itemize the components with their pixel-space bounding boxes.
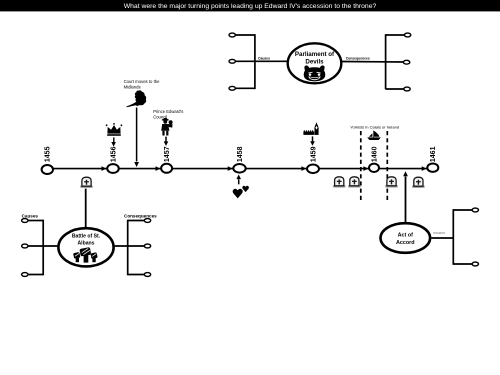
node 1461 xyxy=(427,164,438,172)
grave icon C right of 1460 xyxy=(385,177,398,188)
devil icon xyxy=(304,65,326,81)
wire act consequences vertical xyxy=(452,209,454,265)
wire consequences bracket vertical xyxy=(385,34,387,89)
Parliament consequences circle 2 xyxy=(403,60,409,64)
arrow person to 1457 xyxy=(165,137,167,142)
svg-text:1461: 1461 xyxy=(430,146,437,162)
wire stub br1 xyxy=(128,220,145,222)
grave icon B below 1459-1460 xyxy=(348,177,361,188)
arrow Westminster to 1459 xyxy=(312,136,314,141)
wire battle causes vertical xyxy=(42,220,44,276)
dashed line right of 1460 xyxy=(386,131,388,200)
wire stub r3 xyxy=(386,88,404,90)
Battle consequences circle 3 xyxy=(144,273,150,277)
title banner xyxy=(0,0,500,11)
node 1460 xyxy=(369,164,379,172)
svg-text:1458: 1458 xyxy=(237,146,244,162)
Act consequences circle 1 xyxy=(472,208,478,212)
wire middle battle causes xyxy=(28,245,57,247)
Parliament causes circle 2 xyxy=(229,59,235,63)
sailboat icon above 1460 xyxy=(367,131,381,140)
Parliament consequences bracket: wire middle xyxy=(342,61,403,64)
svg-text:Albans: Albans xyxy=(78,241,95,247)
Westminster icon above 1459 xyxy=(303,122,318,135)
fists icon xyxy=(73,247,98,262)
map of Britain icon (court moves) xyxy=(126,90,146,107)
svg-text:Parliament of: Parliament of xyxy=(295,51,335,58)
arrowhead into 1456 xyxy=(102,166,107,171)
svg-text:Act of: Act of xyxy=(398,233,413,239)
node 1458 xyxy=(233,164,245,173)
svg-text:1460: 1460 xyxy=(371,146,378,162)
Battle causes circle 1 xyxy=(22,219,28,223)
ellipse Battle of St. Albans xyxy=(58,228,113,266)
svg-text:1455: 1455 xyxy=(45,146,52,162)
arrow Act of Accord to timeline xyxy=(405,177,407,223)
wire battle consequences vertical xyxy=(127,220,129,276)
wire stub c3 xyxy=(235,87,255,89)
wire stub r1 xyxy=(386,34,404,36)
svg-text:1456: 1456 xyxy=(110,146,117,162)
arrowhead into 1460 xyxy=(363,166,368,171)
node 1459 xyxy=(307,165,319,174)
dashed line left of 1460 xyxy=(360,131,362,200)
wire timeline main line xyxy=(47,168,433,170)
grave icon below 1455-1456 xyxy=(80,177,93,188)
wire Battle ellipse to timeline xyxy=(85,189,87,228)
svg-text:What were the major turning po: What were the major turning points leadi… xyxy=(124,3,377,10)
svg-text:Consequences: Consequences xyxy=(124,213,157,218)
wire stub ar1 xyxy=(453,209,472,211)
person with child icon above 1457 xyxy=(161,118,172,136)
arrowhead into 1458 xyxy=(228,166,233,171)
arrow crown to 1456 xyxy=(113,137,115,142)
wire stub br3 xyxy=(128,274,145,276)
wire stub bc3 xyxy=(28,274,43,276)
Battle causes circle 2 xyxy=(22,244,28,248)
wire middle battle consequences xyxy=(115,245,145,247)
Parliament causes bracket: circle 1 xyxy=(229,33,235,37)
wire stub ar2 xyxy=(453,263,472,265)
wire middle causes xyxy=(235,60,287,62)
svg-text:Yorkists in Calais or Ireland: Yorkists in Calais or Ireland xyxy=(350,124,399,129)
arrowhead into 1461 xyxy=(422,166,427,171)
Parliament consequences circle 1 xyxy=(404,33,410,37)
Parliament consequences circle 3 xyxy=(404,87,410,91)
arrow hearts up to 1458 xyxy=(238,179,240,184)
svg-text:Prince Edward's: Prince Edward's xyxy=(153,109,183,114)
wire causes bracket vertical xyxy=(254,34,256,89)
wire act consequences middle xyxy=(431,237,453,239)
svg-text:Causes: Causes xyxy=(258,56,270,60)
svg-text:Midlands: Midlands xyxy=(124,85,141,90)
ellipse Parliament of Devils xyxy=(288,43,342,83)
svg-text:Battle of St.: Battle of St. xyxy=(72,234,101,240)
node 1455 xyxy=(42,165,53,174)
svg-text:1457: 1457 xyxy=(164,146,171,162)
Act consequences circle 2 xyxy=(472,262,478,266)
long arrow map to timeline xyxy=(136,108,138,162)
wire stub bc1 xyxy=(28,220,43,222)
wire stub c1 xyxy=(235,34,255,36)
crown icon above 1456 xyxy=(106,123,123,136)
ellipse Act of Accord xyxy=(381,223,431,253)
node 1457 xyxy=(161,164,172,173)
grave icon D below 1461 xyxy=(412,177,425,188)
svg-text:Consequences: Consequences xyxy=(433,233,445,235)
Battle consequences circle 2 xyxy=(144,244,150,248)
Parliament causes circle 3 xyxy=(229,86,235,90)
grave icon A below 1459 xyxy=(333,177,346,188)
arrowhead into 1457 xyxy=(156,166,161,171)
arrowhead into 1459 xyxy=(301,166,306,171)
svg-text:Causes: Causes xyxy=(22,213,39,218)
Battle causes circle 3 xyxy=(22,273,28,277)
Battle consequences circle 1 xyxy=(144,219,150,223)
svg-text:Devils: Devils xyxy=(305,59,324,66)
node 1456 xyxy=(107,164,119,173)
svg-text:1459: 1459 xyxy=(310,146,317,162)
svg-text:Court moves to the: Court moves to the xyxy=(124,79,161,84)
hearts icon below 1458 xyxy=(233,189,243,199)
svg-text:Consequences: Consequences xyxy=(346,56,370,60)
svg-text:Accord: Accord xyxy=(396,240,415,246)
